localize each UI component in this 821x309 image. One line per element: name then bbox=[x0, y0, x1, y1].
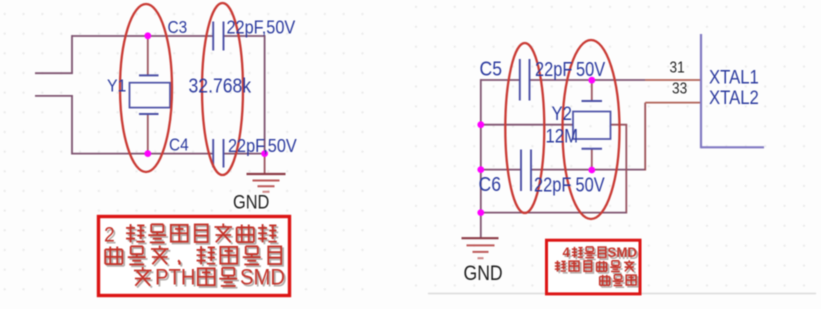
svg-text:C5: C5 bbox=[480, 57, 502, 79]
svg-text:SMD: SMD bbox=[608, 245, 638, 260]
svg-text:22pF: 22pF bbox=[534, 173, 571, 196]
svg-text:C4: C4 bbox=[169, 136, 189, 155]
svg-text:22pF: 22pF bbox=[535, 57, 572, 80]
svg-text:32.768k: 32.768k bbox=[189, 74, 252, 96]
svg-text:22pF,50V: 22pF,50V bbox=[227, 17, 296, 38]
svg-text:Y1: Y1 bbox=[107, 76, 126, 96]
svg-text:22pF,50V: 22pF,50V bbox=[228, 135, 297, 156]
svg-text:50V: 50V bbox=[576, 57, 606, 80]
svg-text:12M: 12M bbox=[546, 126, 578, 147]
svg-text:C6: C6 bbox=[479, 173, 501, 195]
svg-text:XTAL2: XTAL2 bbox=[709, 87, 759, 108]
svg-text:Y2: Y2 bbox=[552, 103, 572, 124]
svg-text:XTAL1: XTAL1 bbox=[709, 67, 759, 88]
svg-text:33: 33 bbox=[672, 81, 687, 98]
svg-text:PTH: PTH bbox=[155, 266, 195, 290]
svg-text:31: 31 bbox=[670, 60, 685, 77]
svg-text:50V: 50V bbox=[576, 173, 606, 196]
svg-text:GND: GND bbox=[233, 191, 269, 213]
svg-text:GND: GND bbox=[464, 262, 503, 286]
svg-text:SMD: SMD bbox=[240, 266, 285, 290]
svg-text:C3: C3 bbox=[168, 18, 188, 37]
svg-text:4: 4 bbox=[563, 245, 571, 260]
svg-text:2: 2 bbox=[104, 224, 115, 247]
